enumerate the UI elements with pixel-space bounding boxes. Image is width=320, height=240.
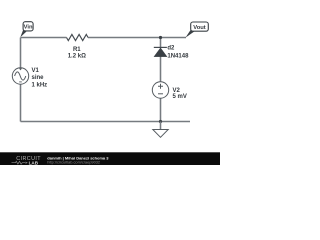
wire R1 to Vout flag (top rail right) xyxy=(88,37,186,39)
voltage source V2 xyxy=(152,82,187,100)
node Vin flag xyxy=(20,22,33,38)
node junction bottom (dot at ground tap) xyxy=(159,120,162,123)
node junction top (dot at diode tap) xyxy=(159,36,162,39)
wire diode stub (top junction to d2) xyxy=(160,38,162,48)
voltage source V1 (sine) xyxy=(12,68,47,89)
wire d2 to V2 xyxy=(160,57,162,83)
resistor R1 xyxy=(67,34,89,59)
svg-text:R1: R1 xyxy=(73,47,81,53)
wire Vin to R1 (top rail left) xyxy=(21,37,67,39)
svg-text:1N4148: 1N4148 xyxy=(167,54,189,60)
svg-text:sine: sine xyxy=(32,75,45,81)
svg-text:5 mV: 5 mV xyxy=(173,94,187,100)
wire bottom rail xyxy=(21,121,191,123)
svg-text:1.2 kΩ: 1.2 kΩ xyxy=(68,54,86,60)
svg-text:d2: d2 xyxy=(167,46,175,52)
svg-text:Vout: Vout xyxy=(193,25,206,31)
svg-text:http://circuitlab.com/c/aep903: http://circuitlab.com/c/aep9032 xyxy=(47,159,100,164)
diode d2 xyxy=(154,46,189,60)
wire left rail upper (Vin corner to V1) xyxy=(20,38,22,69)
footer text xyxy=(47,156,109,165)
wire left rail lower (V1 to bottom rail) xyxy=(20,84,22,121)
logo CircuitLab xyxy=(12,156,42,165)
node Vout flag xyxy=(186,22,209,38)
svg-text:Vin: Vin xyxy=(24,25,33,31)
svg-text:1 kHz: 1 kHz xyxy=(32,83,48,89)
svg-text:V1: V1 xyxy=(32,68,40,74)
ground xyxy=(153,122,168,138)
wire V2 to bottom rail xyxy=(160,98,162,121)
svg-text:LAB: LAB xyxy=(29,160,39,165)
footer bar xyxy=(0,152,220,165)
